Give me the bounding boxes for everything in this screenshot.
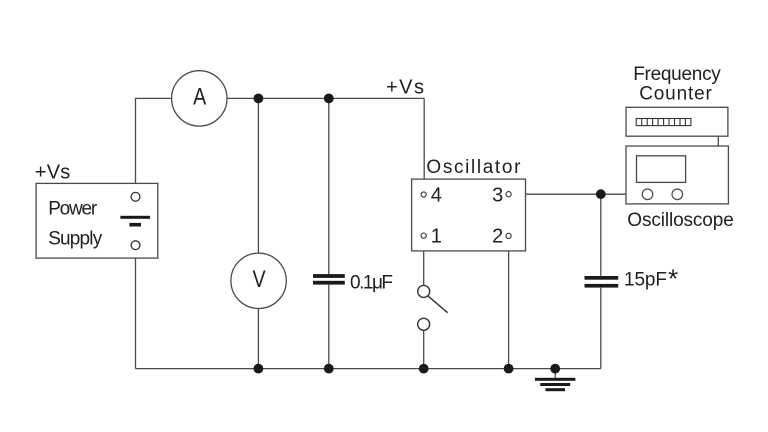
capacitor C2 plates 15pF: [585, 276, 619, 280]
wire pin 3 to oscilloscope: [511, 193, 626, 195]
wire 0.1uF branch upper: [328, 98, 330, 274]
battery bottom terminal: [131, 241, 140, 250]
svg-text:*: *: [668, 264, 678, 294]
junction node top C1: [324, 94, 334, 104]
oscilloscope knob left: [642, 189, 653, 200]
wire +Vs drop to oscillator pin 4: [423, 98, 425, 192]
svg-text:2: 2: [492, 225, 503, 247]
wire power supply bottom to bus: [135, 250, 137, 369]
junction node bus C1: [324, 364, 334, 374]
junction node top V: [254, 94, 264, 104]
frequency counter display: [636, 119, 691, 126]
wire ammeter to power supply top: [136, 98, 172, 192]
wire voltmeter branch lower: [257, 308, 259, 368]
battery long plate: [120, 216, 150, 219]
svg-text:A: A: [193, 83, 206, 110]
wire top bus: [227, 97, 424, 99]
ground: [535, 378, 575, 391]
svg-text:15pF: 15pF: [624, 270, 667, 291]
svg-text:Power: Power: [48, 199, 98, 220]
svg-text:Supply: Supply: [48, 228, 102, 249]
junction node bus V: [254, 364, 264, 374]
battery short plate: [129, 223, 141, 227]
wire ground stem: [554, 369, 556, 378]
junction node bus switch: [419, 364, 429, 374]
svg-text:4: 4: [431, 184, 442, 206]
svg-text:0.1μF: 0.1μF: [350, 273, 393, 294]
wire battery short plate to bottom circle: [135, 226, 137, 241]
oscillator pin 3 circle: [506, 192, 511, 197]
oscilloscope screen: [637, 156, 686, 183]
battery top terminal: [131, 192, 140, 201]
svg-text:+Vs: +Vs: [386, 77, 424, 99]
capacitor C1 plates 0.1uF: [313, 274, 345, 278]
svg-text:+Vs: +Vs: [35, 162, 71, 184]
ammeter A: [172, 71, 227, 126]
wire bottom bus: [136, 368, 601, 370]
wire 15pF branch lower: [600, 288, 602, 369]
wire voltmeter branch upper: [257, 98, 259, 253]
junction node bus ground: [550, 364, 560, 374]
svg-text:3: 3: [492, 184, 503, 206]
switch S1 bottom contact: [418, 318, 430, 330]
junction node bus pin2: [504, 364, 514, 374]
wire pin 2 drop: [508, 239, 510, 369]
svg-text:1: 1: [431, 225, 442, 247]
frequency counter box: [626, 107, 728, 136]
wire switch to bus: [423, 330, 425, 368]
voltmeter V: [231, 253, 286, 308]
wire battery top circle to plate: [135, 201, 137, 215]
wire counter to scope stub: [717, 136, 719, 146]
oscilloscope box: [626, 146, 728, 204]
power supply box: [36, 183, 158, 258]
oscillator pin 2 circle: [506, 233, 511, 238]
svg-text:Oscilloscope: Oscilloscope: [627, 210, 734, 231]
wire 15pF branch upper: [600, 194, 602, 276]
svg-text:Counter: Counter: [639, 83, 712, 104]
junction node scope input: [596, 189, 606, 199]
oscillator pin 1 circle: [421, 233, 426, 238]
oscillator pin 4 circle: [421, 192, 426, 197]
oscillator U1 box: [412, 179, 526, 251]
switch S1 top contact: [418, 285, 430, 297]
wire pin 1 to switch: [423, 238, 425, 285]
svg-text:Frequency: Frequency: [633, 64, 721, 85]
svg-text:Oscillator: Oscillator: [426, 157, 521, 178]
oscilloscope knob right: [672, 189, 683, 200]
switch S1 blade: [428, 296, 447, 313]
wire 0.1uF branch lower: [328, 285, 330, 369]
svg-text:V: V: [252, 265, 265, 292]
